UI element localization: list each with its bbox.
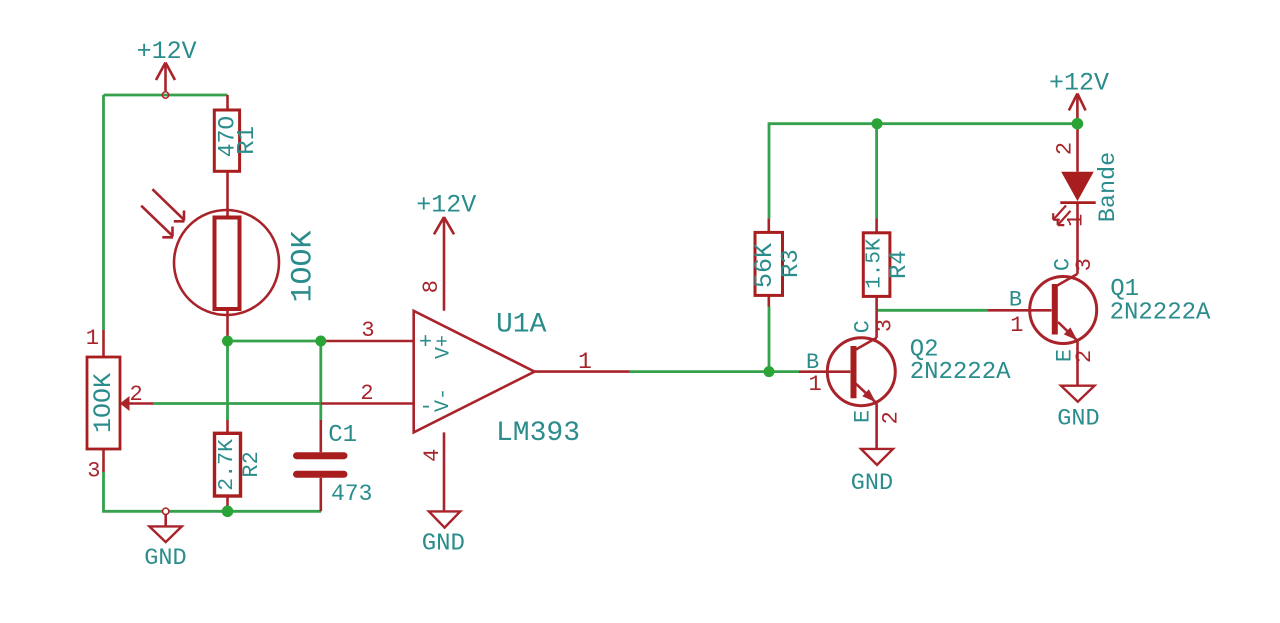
- svg-text:3: 3: [361, 318, 374, 343]
- svg-text:GND: GND: [422, 531, 465, 558]
- svg-text:2N2222A: 2N2222A: [1110, 299, 1211, 326]
- svg-text:2: 2: [1072, 350, 1097, 363]
- svg-text:56K: 56K: [750, 243, 779, 288]
- svg-text:+12V: +12V: [1049, 68, 1109, 97]
- svg-text:4: 4: [420, 449, 445, 462]
- svg-text:V+: V+: [432, 335, 455, 359]
- svg-text:+12V: +12V: [137, 37, 197, 66]
- svg-text:1OOK: 1OOK: [89, 373, 118, 433]
- svg-text:1OOK: 1OOK: [287, 230, 321, 302]
- svg-text:R4: R4: [886, 250, 913, 279]
- svg-text:1: 1: [578, 349, 592, 375]
- svg-text:LM393: LM393: [496, 418, 580, 449]
- svg-text:U1A: U1A: [496, 310, 547, 341]
- svg-text:1: 1: [1010, 313, 1023, 338]
- svg-text:B: B: [1009, 288, 1022, 313]
- svg-text:1: 1: [809, 372, 822, 397]
- svg-text:473: 473: [331, 481, 372, 507]
- svg-text:-: -: [419, 395, 432, 420]
- svg-text:GND: GND: [144, 545, 186, 572]
- svg-text:1.5K: 1.5K: [863, 238, 886, 289]
- svg-text:1: 1: [1064, 214, 1089, 227]
- svg-text:Bande: Bande: [1095, 152, 1122, 223]
- svg-text:2.7K: 2.7K: [215, 439, 239, 491]
- svg-text:R2: R2: [239, 451, 264, 477]
- svg-text:E: E: [850, 410, 875, 423]
- svg-text:+: +: [419, 330, 432, 355]
- svg-text:2N2222A: 2N2222A: [910, 359, 1011, 386]
- svg-text:2: 2: [130, 382, 143, 407]
- svg-text:3: 3: [1072, 258, 1097, 271]
- svg-text:1: 1: [86, 326, 99, 351]
- svg-text:R1: R1: [234, 126, 261, 155]
- svg-text:+12V: +12V: [416, 190, 476, 219]
- svg-text:GND: GND: [851, 470, 893, 497]
- svg-text:R3: R3: [778, 249, 805, 278]
- svg-text:2: 2: [360, 381, 373, 406]
- svg-text:3: 3: [87, 459, 100, 484]
- svg-text:GND: GND: [1057, 406, 1099, 433]
- svg-text:2: 2: [878, 411, 903, 424]
- svg-text:C1: C1: [328, 422, 357, 449]
- svg-text:8: 8: [419, 280, 444, 293]
- svg-text:2: 2: [1053, 142, 1078, 155]
- svg-text:V-: V-: [432, 388, 455, 412]
- svg-text:3: 3: [873, 319, 898, 332]
